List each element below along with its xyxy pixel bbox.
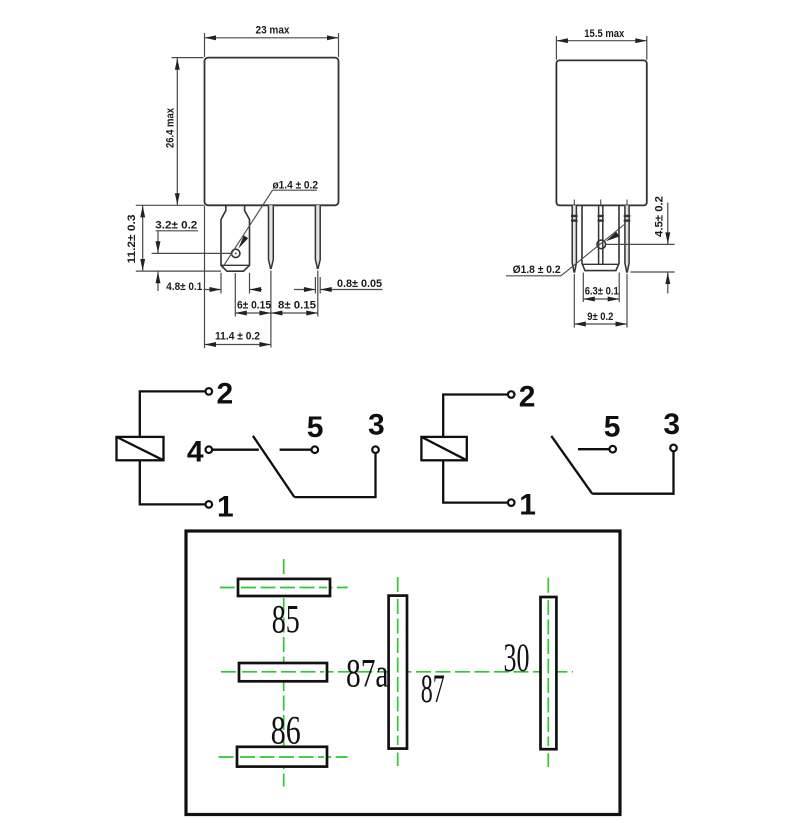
svg-text:5: 5 [604, 410, 621, 443]
svg-text:ø1.4 ± 0.2: ø1.4 ± 0.2 [273, 179, 319, 191]
dimension 6 ± 0.15 (blade to middle pin pitch) [235, 271, 271, 348]
label 1 (right) [519, 489, 536, 522]
leader Ø1.8 ± 0.2 (hole diameter callout, side view) [506, 224, 626, 277]
label 87a [346, 651, 389, 696]
terminal 4 (common, left schematic) [206, 446, 213, 453]
hole in blade (side view) [597, 240, 606, 249]
svg-text:26.4 max: 26.4 max [165, 107, 177, 148]
green centerline vertical pad 87 [397, 577, 399, 766]
wide blade terminal (front view) [221, 205, 250, 271]
dimension 11.4 ± 0.2 (body edge to middle pin) [205, 206, 271, 348]
middle coil pin (side view, in front of blade) [598, 200, 604, 265]
svg-text:30: 30 [504, 635, 530, 680]
dimension 11.2 ± 0.3 (blade length) [126, 205, 221, 271]
label 86 [271, 708, 301, 753]
svg-text:2: 2 [519, 381, 536, 414]
relay body outline (side view) [556, 60, 646, 205]
left coil pin (side view) [571, 200, 578, 273]
green centerline vertical left pad column [283, 559, 285, 787]
label 5 (right) [604, 410, 621, 443]
label 2 [217, 378, 234, 411]
dimension 4.8 ± 0.1 (blade width) [166, 273, 262, 294]
terminal 2 (left schematic) [206, 388, 213, 395]
terminal 1 (left schematic) [206, 501, 213, 508]
svg-text:8± 0.15: 8± 0.15 [278, 299, 316, 311]
terminal 5 (right schematic) [609, 446, 616, 453]
terminal 3 (right schematic) [670, 445, 677, 452]
svg-text:6.3± 0.1: 6.3± 0.1 [585, 285, 619, 297]
label 1 [217, 491, 234, 524]
PCB layout border frame [186, 531, 620, 815]
svg-text:4.8± 0.1: 4.8± 0.1 [166, 281, 202, 293]
right thin pin (front view) [315, 205, 320, 268]
svg-text:1: 1 [519, 489, 536, 522]
label 30 [504, 635, 530, 680]
svg-text:4.5± 0.2: 4.5± 0.2 [654, 196, 666, 237]
green centerline horizontal pad 85 row [220, 587, 348, 589]
mounting hole in blade [232, 249, 240, 257]
terminal 1 (right schematic) [508, 499, 515, 506]
green centerline horizontal middle row [221, 671, 573, 673]
dimension 6.3 ± 0.1 (blade width, side view) [583, 273, 619, 303]
label 2 (right) [519, 381, 536, 414]
wide blade terminal (side view) [582, 205, 619, 270]
wire coil top to terminal 2 (right) [443, 395, 508, 437]
svg-text:2: 2 [217, 378, 234, 411]
svg-text:87a: 87a [346, 651, 389, 696]
dimension 26.4 max (body height) [165, 58, 204, 206]
terminal 2 (right schematic) [508, 391, 515, 398]
stub wire to terminal 5 (right) [578, 448, 609, 450]
wire coil top to terminal 2 [140, 391, 206, 437]
label 3 [368, 409, 385, 442]
pad 87 (middle vertical pad) [389, 596, 407, 749]
pad 87a (middle left pad) [239, 663, 327, 681]
leader ø1.4 ± 0.2 (hole diameter callout) [222, 179, 318, 268]
label 85 [272, 597, 300, 642]
svg-text:11.4 ± 0.2: 11.4 ± 0.2 [215, 330, 260, 342]
wire from terminal 4 [212, 449, 259, 451]
wire bottom run to terminal 3 riser (right) [592, 451, 673, 494]
svg-text:85: 85 [272, 597, 300, 642]
dimension 8 ± 0.15 (middle to right pin pitch) [271, 271, 318, 317]
pad 30 (right vertical pad) [541, 597, 557, 749]
dimension 4.5 ± 0.2 (hole to pin tip) [606, 196, 675, 294]
wire bottom run to terminal 3 riser [294, 453, 375, 497]
movable contact blade (right schematic) [551, 436, 592, 494]
terminal 3 (left schematic) [372, 446, 379, 453]
pad 86 (bottom left pad) [237, 747, 327, 767]
middle thin pin (front view) [269, 205, 274, 268]
wire coil bottom to terminal 1 [140, 460, 206, 504]
dimension 3.2 ± 0.2 (hole position) [152, 219, 232, 291]
wire coil bottom to terminal 1 (right) [443, 460, 508, 502]
svg-text:5: 5 [307, 411, 324, 444]
green centerline horizontal pad 86 row [219, 756, 348, 758]
svg-text:87: 87 [421, 666, 445, 711]
relay body outline (front view) [205, 58, 339, 206]
svg-text:0.8± 0.05: 0.8± 0.05 [337, 278, 382, 290]
svg-text:3.2± 0.2: 3.2± 0.2 [155, 219, 197, 231]
svg-text:15.5 max: 15.5 max [584, 28, 625, 40]
svg-text:Ø1.8 ± 0.2: Ø1.8 ± 0.2 [513, 264, 561, 276]
svg-text:3: 3 [663, 408, 680, 441]
movable contact blade (left schematic) [253, 436, 295, 497]
terminal 5 (left schematic) [312, 446, 319, 453]
dimension 9 ± 0.2 (outer pin pitch) [574, 274, 627, 328]
svg-text:23 max: 23 max [256, 25, 291, 37]
green centerline vertical pad 30 [547, 578, 549, 767]
dimension 23 max (body width) [205, 25, 339, 58]
label 3 (right) [663, 408, 680, 441]
dimension 0.8 ± 0.05 (pin thickness) [294, 277, 383, 294]
label 87 [421, 666, 445, 711]
stub wire to terminal 5 [280, 449, 312, 451]
pad 85 [238, 579, 330, 596]
svg-text:4: 4 [187, 436, 204, 469]
dimension 15.5 max (body depth) [556, 28, 646, 60]
right coil pin (side view) [624, 200, 631, 273]
label 5 [307, 411, 324, 444]
coil K2 (right schematic) [421, 437, 466, 460]
svg-text:3: 3 [368, 409, 385, 442]
svg-text:1: 1 [217, 491, 234, 524]
svg-text:6± 0.15: 6± 0.15 [237, 299, 271, 311]
svg-text:11.2± 0.3: 11.2± 0.3 [126, 215, 138, 264]
coil K1 (left schematic) [117, 437, 164, 460]
label 4 [187, 436, 204, 469]
svg-text:9± 0.2: 9± 0.2 [587, 311, 613, 323]
